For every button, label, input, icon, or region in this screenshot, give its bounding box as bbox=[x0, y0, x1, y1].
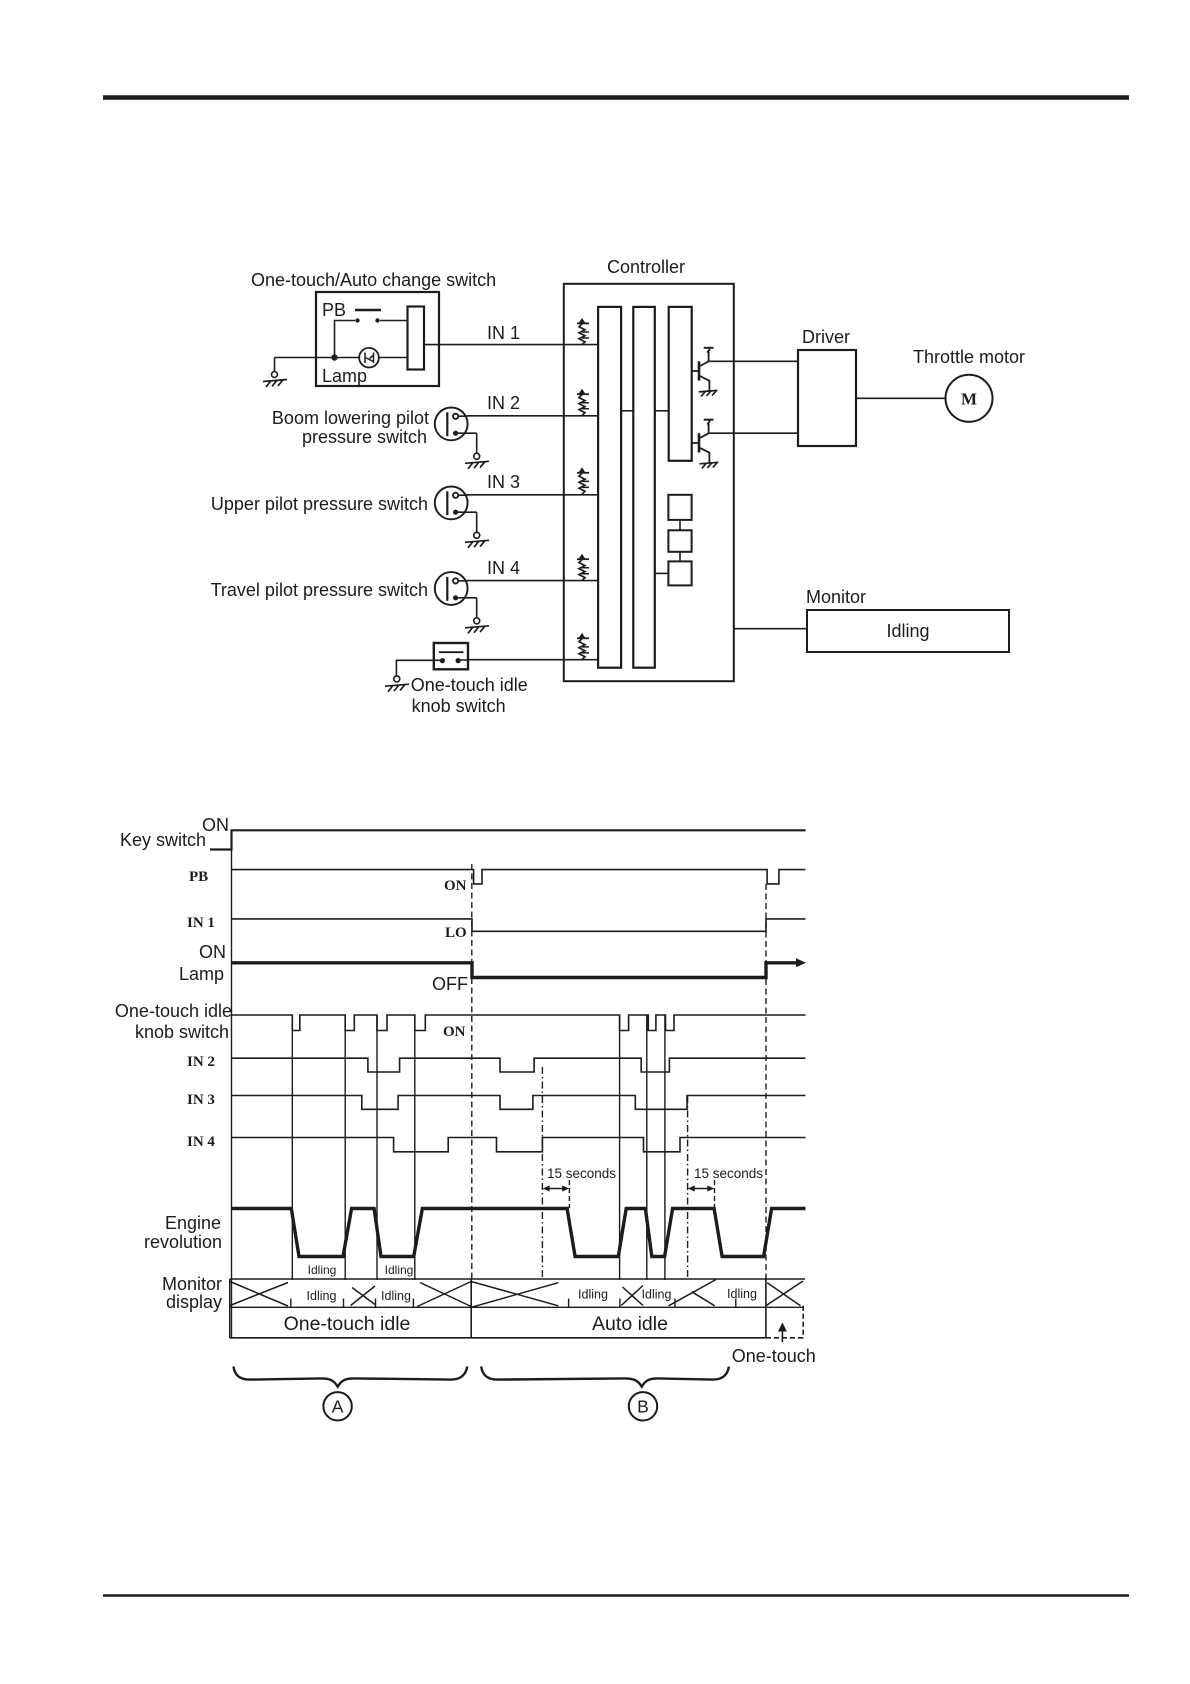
svg-text:Lamp: Lamp bbox=[179, 964, 224, 984]
timing grid verticals bbox=[232, 830, 767, 1338]
svg-text:IN 4: IN 4 bbox=[187, 1134, 215, 1150]
wire lamp row bbox=[275, 357, 408, 359]
wire S1 to ground bbox=[476, 433, 478, 453]
svg-text:IN 3: IN 3 bbox=[487, 472, 520, 492]
svg-text:Throttle motor: Throttle motor bbox=[913, 347, 1025, 367]
ground S2 bbox=[474, 532, 480, 538]
node one-touch event dashed bbox=[765, 884, 767, 1278]
svg-text:IN 1: IN 1 bbox=[487, 323, 520, 343]
wire B1-B2 bbox=[679, 520, 681, 530]
band divider A/B bbox=[470, 1279, 472, 1338]
driver box bbox=[798, 350, 856, 446]
svg-text:LO: LO bbox=[445, 925, 467, 941]
band cross X7 bbox=[766, 1281, 803, 1306]
wire PB right leg to connector bbox=[380, 320, 408, 322]
svg-text:IN 2: IN 2 bbox=[187, 1054, 215, 1070]
throttle motor M bbox=[946, 375, 993, 422]
svg-text:PB: PB bbox=[322, 300, 346, 320]
knob switch actuator bbox=[439, 651, 464, 653]
logic block B2 bbox=[668, 530, 691, 552]
top rule bbox=[103, 95, 1129, 100]
wire S3 to ground bbox=[476, 598, 478, 618]
signal key switch bbox=[210, 830, 806, 849]
wire event line 7 bbox=[664, 1015, 666, 1280]
svg-text:Auto idle: Auto idle bbox=[592, 1313, 668, 1335]
wire knob to controller bbox=[458, 659, 598, 661]
svg-text:ON: ON bbox=[444, 878, 467, 894]
connector bar bbox=[408, 307, 425, 370]
one-touch idle knob switch box bbox=[434, 643, 468, 669]
pull-up resistor R5 bbox=[577, 633, 589, 660]
signal knob switch bbox=[232, 1015, 806, 1031]
svg-text:Idling: Idling bbox=[307, 1289, 337, 1303]
band tick 3 bbox=[375, 1299, 377, 1308]
svg-text:knob switch: knob switch bbox=[135, 1022, 229, 1042]
svg-text:pressure switch: pressure switch bbox=[302, 427, 427, 447]
svg-text:A: A bbox=[332, 1397, 344, 1417]
wire IN 3 bbox=[467, 494, 598, 496]
brace A bbox=[234, 1367, 468, 1387]
lamp L1 bbox=[359, 348, 379, 368]
svg-text:Boom lowering pilot: Boom lowering pilot bbox=[272, 408, 429, 428]
wire Q2 collector to driver bbox=[709, 432, 798, 434]
band tick 4 bbox=[412, 1299, 414, 1308]
svg-text:ON: ON bbox=[443, 1024, 466, 1040]
pull-up resistor R4 bbox=[577, 554, 589, 581]
signal IN 4 bbox=[232, 1138, 806, 1152]
svg-text:Key switch: Key switch bbox=[120, 830, 206, 850]
switch PB actuator bbox=[355, 309, 381, 311]
band cross X2 small bbox=[351, 1286, 375, 1306]
svg-text:Idling: Idling bbox=[385, 1263, 414, 1277]
wire bar2 to B3 bbox=[655, 572, 669, 574]
node t0 axis bbox=[231, 830, 233, 1338]
wire bar2 to bar3 bbox=[655, 410, 669, 412]
svg-text:knob switch: knob switch bbox=[412, 696, 506, 716]
band tick 5 bbox=[568, 1299, 570, 1308]
wire event line 2 bbox=[344, 1015, 346, 1280]
svg-text:Upper pilot pressure switch: Upper pilot pressure switch bbox=[211, 494, 428, 514]
svg-text:Monitor: Monitor bbox=[806, 587, 866, 607]
wire event line 1 bbox=[291, 1015, 293, 1280]
node circled B bbox=[629, 1392, 657, 1420]
15 seconds arrow 1 bbox=[543, 1180, 570, 1208]
pressure switch S1 bbox=[435, 408, 477, 441]
wire B2-B3 bbox=[679, 552, 681, 562]
monitor box bbox=[807, 610, 1009, 652]
svg-text:IN 1: IN 1 bbox=[187, 915, 215, 931]
wire event line 6 bbox=[646, 1015, 648, 1280]
junction dot bbox=[331, 354, 337, 360]
monitor display band bbox=[230, 1279, 805, 1338]
svg-text:One-touch idle: One-touch idle bbox=[411, 675, 528, 695]
wire bar1 to bar2 bbox=[621, 410, 633, 412]
band cross X4 wide bbox=[471, 1282, 558, 1308]
svg-text:Idling: Idling bbox=[381, 1289, 411, 1303]
ground G1 bbox=[272, 372, 278, 378]
wire to ground bbox=[274, 358, 276, 372]
svg-text:IN 3: IN 3 bbox=[187, 1092, 215, 1108]
wire IN 1 bbox=[424, 344, 598, 346]
svg-text:15 seconds: 15 seconds bbox=[694, 1166, 763, 1181]
svg-text:IN 2: IN 2 bbox=[487, 393, 520, 413]
svg-text:Controller: Controller bbox=[607, 257, 685, 277]
signal engine revolution bbox=[232, 1209, 806, 1257]
signal IN 2 bbox=[232, 1058, 806, 1072]
band tick 6 bbox=[619, 1299, 621, 1308]
svg-text:Monitor: Monitor bbox=[162, 1274, 222, 1294]
lamp arrowhead bbox=[796, 958, 806, 967]
pull-up resistor R2 bbox=[577, 389, 589, 416]
wire driver to motor bbox=[856, 397, 946, 399]
band cross X5 small bbox=[621, 1286, 643, 1306]
15 seconds arrow 2 bbox=[688, 1180, 715, 1208]
svg-text:display: display bbox=[166, 1292, 222, 1312]
wire event line 5 bbox=[619, 1015, 621, 1280]
switch PB contacts bbox=[355, 318, 359, 322]
band tick 1 bbox=[290, 1299, 292, 1308]
wire event line 3 bbox=[376, 1015, 378, 1280]
bottom rule bbox=[103, 1594, 1129, 1597]
svg-text:One-touch idle: One-touch idle bbox=[284, 1313, 411, 1335]
svg-text:Idling: Idling bbox=[308, 1263, 337, 1277]
pressure switch S3 bbox=[435, 572, 477, 605]
svg-text:M: M bbox=[961, 390, 977, 409]
svg-text:15 seconds: 15 seconds bbox=[547, 1166, 616, 1181]
signal PB bbox=[232, 870, 806, 884]
ground Q1 bbox=[699, 390, 718, 396]
svg-text:Engine: Engine bbox=[165, 1213, 221, 1233]
transistor Q2 bbox=[692, 420, 714, 463]
pull-up resistor R1 bbox=[577, 318, 589, 345]
controller bus bar 2 bbox=[633, 307, 655, 668]
signal lamp bbox=[232, 963, 798, 978]
svg-text:Idling: Idling bbox=[886, 621, 929, 641]
wire knob left to ground bbox=[396, 660, 442, 676]
wire 15s start dash-dot bbox=[541, 1067, 543, 1280]
svg-text:Idling: Idling bbox=[642, 1288, 672, 1302]
node circled A bbox=[323, 1392, 351, 1420]
wire PB left leg bbox=[335, 321, 356, 358]
controller box bbox=[564, 284, 734, 681]
svg-text:Lamp: Lamp bbox=[322, 366, 367, 386]
band cross X3 bbox=[417, 1282, 471, 1307]
svg-text:OFF: OFF bbox=[432, 974, 468, 994]
svg-text:B: B bbox=[637, 1397, 649, 1417]
band tick 2 bbox=[343, 1299, 345, 1308]
svg-text:ON: ON bbox=[202, 815, 229, 835]
one-touch/auto change switch box bbox=[316, 292, 439, 386]
ground S1 bbox=[474, 453, 480, 459]
band cross X1 bbox=[230, 1282, 288, 1307]
svg-text:Idling: Idling bbox=[727, 1287, 757, 1301]
band cross X6 bbox=[669, 1280, 716, 1306]
ground S3 bbox=[474, 618, 480, 624]
band tick 8 bbox=[735, 1299, 737, 1308]
controller bus bar 1 bbox=[598, 307, 621, 668]
brace B bbox=[481, 1367, 729, 1387]
band tick 7 bbox=[674, 1299, 676, 1308]
one-touch arrow bbox=[778, 1323, 787, 1343]
wire controller to monitor bbox=[734, 628, 807, 630]
logic block B3 bbox=[668, 561, 691, 585]
wire S2 to ground bbox=[476, 512, 478, 532]
svg-text:ON: ON bbox=[199, 942, 226, 962]
svg-text:One-touch idle: One-touch idle bbox=[115, 1001, 232, 1021]
svg-text:IN 4: IN 4 bbox=[487, 558, 520, 578]
wire 15s start 2 dash-dot bbox=[687, 1096, 689, 1280]
svg-text:One-touch: One-touch bbox=[732, 1346, 816, 1366]
controller bus bar 3 bbox=[669, 307, 692, 461]
wire IN 2 bbox=[467, 415, 598, 417]
svg-text:Idling: Idling bbox=[578, 1288, 608, 1302]
knob switch contacts bbox=[440, 658, 445, 663]
signal IN 1 bbox=[232, 919, 806, 931]
ground Q2 bbox=[700, 462, 719, 468]
transistor Q1 bbox=[692, 348, 714, 391]
svg-text:revolution: revolution bbox=[144, 1232, 222, 1252]
mode band bbox=[230, 1278, 804, 1339]
svg-text:Travel pilot pressure switch: Travel pilot pressure switch bbox=[211, 580, 428, 600]
node A/B boundary dashed bbox=[471, 864, 473, 1279]
wire Q1 collector to driver bbox=[709, 360, 798, 362]
signal IN 3 bbox=[232, 1096, 806, 1110]
svg-text:Driver: Driver bbox=[802, 327, 850, 347]
svg-text:PB: PB bbox=[189, 869, 208, 885]
wire IN 4 bbox=[467, 580, 598, 582]
logic block B1 bbox=[668, 495, 691, 520]
pressure switch S2 bbox=[435, 487, 477, 520]
svg-text:One-touch/Auto change switch: One-touch/Auto change switch bbox=[251, 270, 496, 290]
wire event line 4 bbox=[414, 1015, 416, 1280]
ground knob bbox=[394, 676, 400, 682]
pull-up resistor R3 bbox=[577, 467, 589, 494]
